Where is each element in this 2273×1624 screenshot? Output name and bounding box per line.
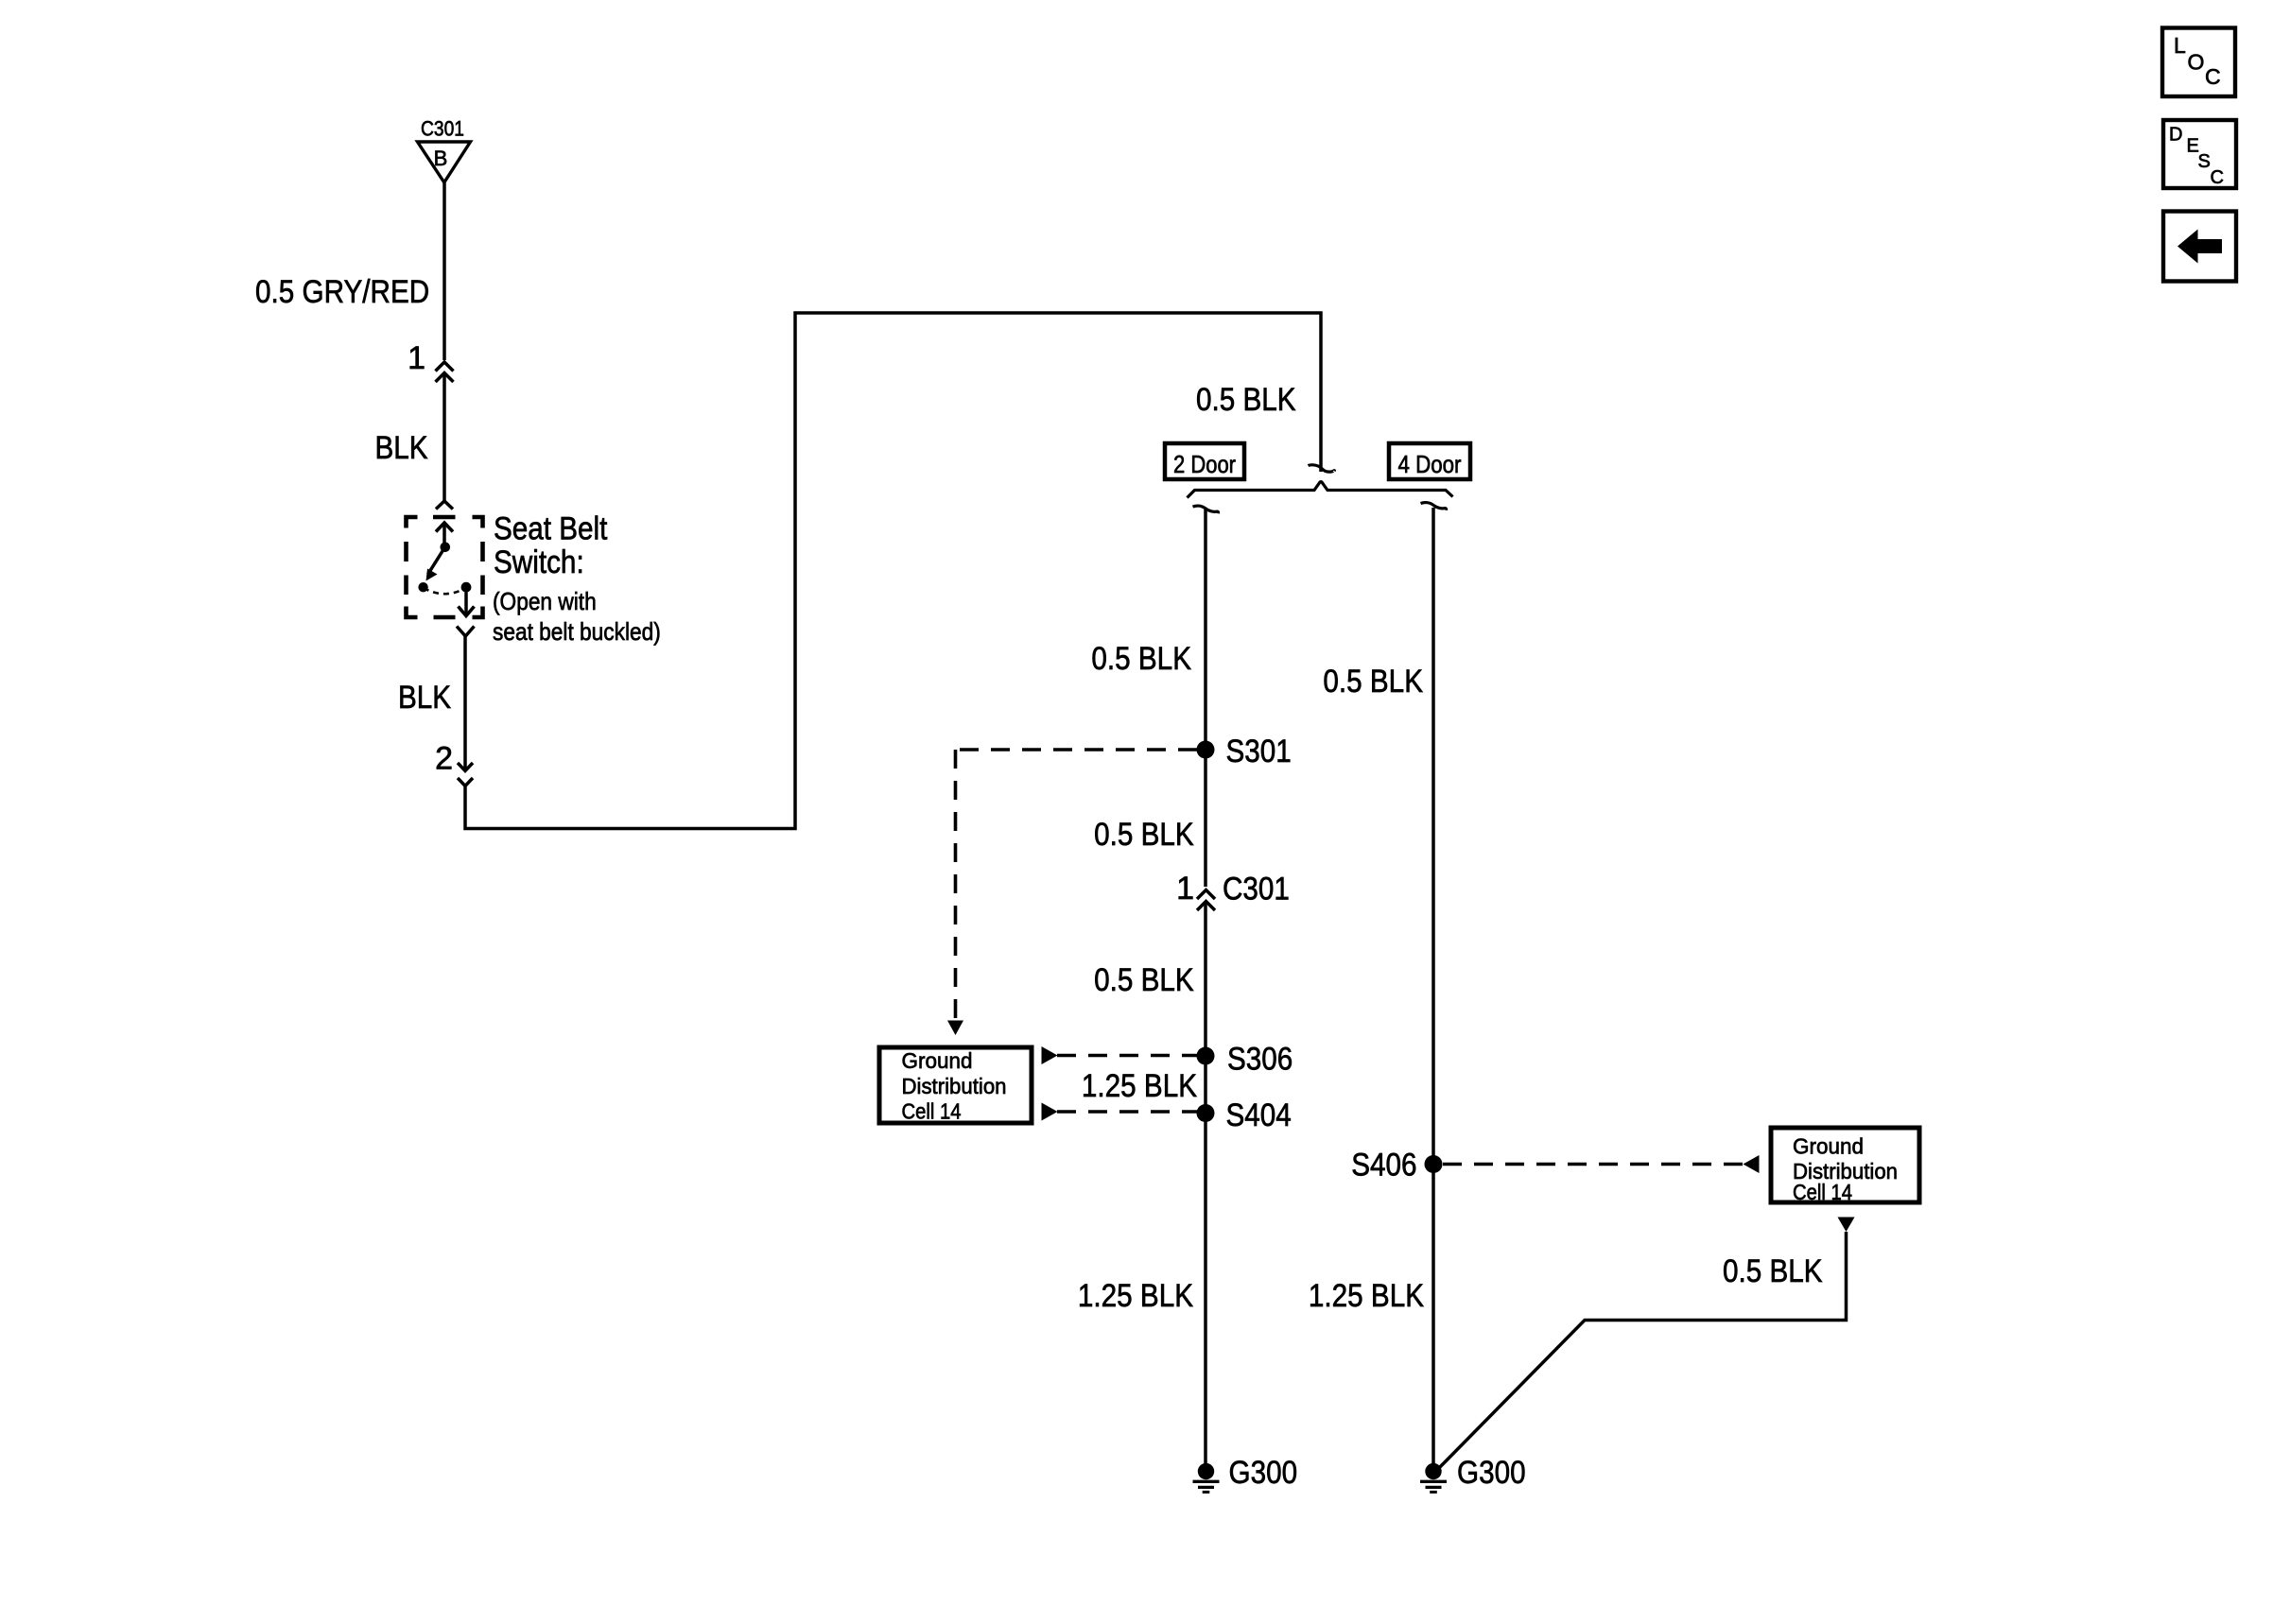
- svg-text:B: B: [434, 147, 448, 170]
- svg-text:1: 1: [408, 340, 425, 376]
- svg-text:C: C: [2205, 64, 2221, 89]
- svg-text:(Open with: (Open with: [493, 587, 597, 615]
- svg-text:C301: C301: [1223, 872, 1290, 907]
- svg-text:Cell 14: Cell 14: [1793, 1180, 1852, 1204]
- svg-text:D: D: [2169, 125, 2182, 146]
- svg-text:O: O: [2188, 50, 2205, 75]
- svg-text:1: 1: [1176, 871, 1194, 907]
- svg-text:S301: S301: [1226, 734, 1292, 769]
- svg-text:C: C: [2211, 167, 2224, 188]
- svg-text:0.5 BLK: 0.5 BLK: [1094, 817, 1194, 853]
- svg-text:0.5 BLK: 0.5 BLK: [1094, 962, 1194, 998]
- svg-text:0.5 BLK: 0.5 BLK: [1196, 382, 1296, 418]
- svg-text:0.5 BLK: 0.5 BLK: [1723, 1253, 1823, 1289]
- svg-text:Switch:: Switch:: [494, 544, 584, 580]
- svg-text:S406: S406: [1351, 1148, 1416, 1183]
- svg-text:Ground: Ground: [1793, 1134, 1864, 1159]
- svg-text:S306: S306: [1227, 1042, 1293, 1078]
- svg-text:S404: S404: [1226, 1097, 1292, 1133]
- svg-text:Ground: Ground: [902, 1048, 973, 1073]
- svg-text:0.5 BLK: 0.5 BLK: [1323, 664, 1423, 700]
- svg-text:4 Door: 4 Door: [1398, 450, 1462, 478]
- svg-text:1.25 BLK: 1.25 BLK: [1082, 1068, 1197, 1104]
- svg-text:Distribution: Distribution: [902, 1074, 1007, 1098]
- svg-text:2: 2: [435, 741, 453, 777]
- svg-text:2 Door: 2 Door: [1173, 450, 1236, 478]
- svg-text:S: S: [2198, 151, 2211, 172]
- svg-text:0.5 GRY/RED: 0.5 GRY/RED: [255, 274, 429, 310]
- svg-text:G300: G300: [1229, 1455, 1298, 1491]
- svg-text:BLK: BLK: [375, 430, 428, 466]
- svg-text:1.25 BLK: 1.25 BLK: [1309, 1278, 1424, 1314]
- svg-text:1.25 BLK: 1.25 BLK: [1078, 1278, 1193, 1314]
- svg-text:0.5 BLK: 0.5 BLK: [1091, 641, 1191, 677]
- svg-text:C301: C301: [421, 117, 464, 141]
- svg-text:Seat Belt: Seat Belt: [494, 511, 608, 547]
- svg-text:seat belt buckled): seat belt buckled): [493, 617, 661, 646]
- svg-text:G300: G300: [1457, 1455, 1526, 1491]
- svg-text:L: L: [2174, 33, 2186, 58]
- svg-text:Cell 14: Cell 14: [902, 1099, 962, 1124]
- svg-text:BLK: BLK: [398, 680, 451, 716]
